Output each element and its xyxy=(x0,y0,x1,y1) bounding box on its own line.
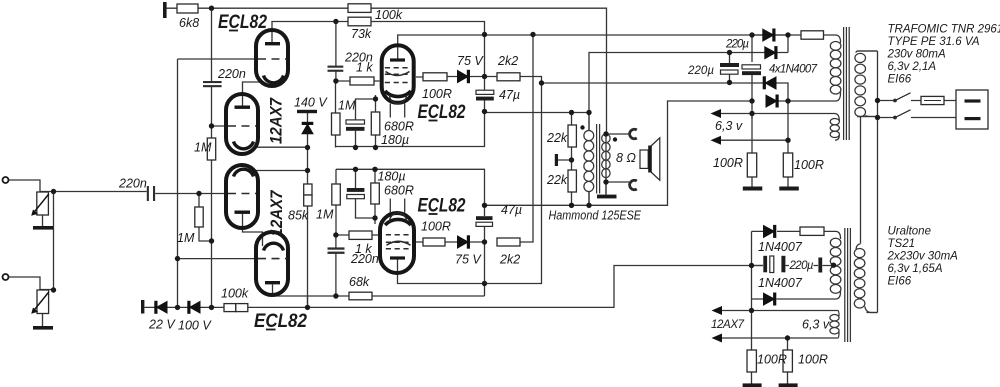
svg-text:ECL82: ECL82 xyxy=(254,311,307,332)
svg-text:12AX7: 12AX7 xyxy=(268,190,286,237)
svg-text:100 V: 100 V xyxy=(178,319,212,333)
svg-text:6,3 v: 6,3 v xyxy=(715,119,743,133)
svg-text:22 V: 22 V xyxy=(148,318,176,332)
svg-text:47µ: 47µ xyxy=(499,88,520,102)
svg-text:TRAFOMIC TNR 29619: TRAFOMIC TNR 29619 xyxy=(888,24,1000,36)
svg-text:180µ: 180µ xyxy=(381,133,409,147)
svg-text:220n: 220n xyxy=(217,67,246,81)
svg-text:220µ: 220µ xyxy=(789,260,814,272)
svg-text:ECL82: ECL82 xyxy=(418,196,466,217)
svg-text:73k: 73k xyxy=(351,27,372,41)
svg-text:2k2: 2k2 xyxy=(499,253,520,267)
svg-text:EI66: EI66 xyxy=(888,276,912,288)
svg-text:EI66: EI66 xyxy=(888,74,912,86)
svg-text:180µ: 180µ xyxy=(378,170,406,184)
svg-text:680R: 680R xyxy=(384,120,414,134)
svg-text:75 V: 75 V xyxy=(455,253,482,267)
svg-text:680R: 680R xyxy=(384,184,414,198)
svg-text:140 V: 140 V xyxy=(294,96,328,110)
svg-text:2k2: 2k2 xyxy=(497,54,518,68)
svg-text:220µ: 220µ xyxy=(725,39,749,51)
svg-text:6k8: 6k8 xyxy=(179,16,199,30)
svg-text:1N4007: 1N4007 xyxy=(758,240,803,254)
svg-text:TS21: TS21 xyxy=(888,238,916,250)
svg-text:100R: 100R xyxy=(798,353,828,367)
svg-text:6,3v 1,65A: 6,3v 1,65A xyxy=(888,263,943,275)
svg-text:1M: 1M xyxy=(338,99,356,113)
svg-text:100R: 100R xyxy=(713,156,743,170)
svg-text:4x1N4007: 4x1N4007 xyxy=(769,64,818,76)
svg-text:12AX7: 12AX7 xyxy=(268,97,286,144)
svg-text:100R: 100R xyxy=(794,158,824,172)
svg-text:220n: 220n xyxy=(350,252,379,266)
svg-text:12AX7: 12AX7 xyxy=(711,319,745,331)
svg-text:100R: 100R xyxy=(757,353,787,367)
svg-text:22k: 22k xyxy=(546,131,568,145)
svg-text:ECL82: ECL82 xyxy=(218,12,267,33)
svg-text:220n: 220n xyxy=(118,177,147,191)
svg-text:1M: 1M xyxy=(316,208,334,222)
svg-text:47µ: 47µ xyxy=(501,203,522,217)
svg-text:8 Ω: 8 Ω xyxy=(616,151,636,165)
svg-text:1 k: 1 k xyxy=(356,61,373,75)
svg-text:Uraltone: Uraltone xyxy=(888,226,931,238)
svg-text:75 V: 75 V xyxy=(457,54,484,68)
svg-text:100R: 100R xyxy=(421,220,451,234)
svg-text:100R: 100R xyxy=(422,87,452,101)
svg-text:ECL82: ECL82 xyxy=(418,102,466,123)
svg-text:1M: 1M xyxy=(194,141,212,155)
svg-text:220µ: 220µ xyxy=(687,65,714,77)
svg-text:22k: 22k xyxy=(546,173,568,187)
svg-text:TYPE PE 31.6 VA: TYPE PE 31.6 VA xyxy=(888,36,980,48)
svg-text:2x230v 30mA: 2x230v 30mA xyxy=(887,251,959,263)
svg-text:6,3v 2,1A: 6,3v 2,1A xyxy=(888,61,937,73)
svg-text:Hammond 125ESE: Hammond 125ESE xyxy=(549,209,642,223)
svg-text:1N4007: 1N4007 xyxy=(758,276,803,290)
svg-text:6,3 v: 6,3 v xyxy=(802,318,830,332)
svg-text:1M: 1M xyxy=(177,231,195,245)
svg-text:68k: 68k xyxy=(349,275,370,289)
svg-text:85k: 85k xyxy=(288,209,309,223)
svg-text:230v 80mA: 230v 80mA xyxy=(887,49,947,61)
svg-text:100k: 100k xyxy=(221,287,249,301)
svg-text:100k: 100k xyxy=(375,8,403,22)
